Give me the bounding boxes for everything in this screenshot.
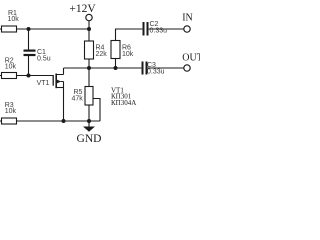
capacitor C3 bbox=[143, 62, 184, 75]
wire mid rail (drain node) bbox=[64, 67, 142, 69]
svg-text:10k: 10k bbox=[8, 16, 20, 23]
svg-text:OUT: OUT bbox=[182, 53, 200, 64]
capacitor C1 bbox=[24, 51, 36, 76]
node junction R6 bottom bbox=[114, 66, 118, 70]
power terminal +12V bbox=[86, 14, 92, 29]
wire R6 top to C2 bbox=[116, 29, 143, 41]
wire top rail to +12V junction bbox=[29, 28, 90, 30]
terminal OUT bbox=[184, 65, 190, 71]
resistor R4 bbox=[85, 41, 94, 59]
node junction R4/R5/drain bbox=[87, 66, 91, 70]
svg-text:VT1: VT1 bbox=[37, 80, 50, 87]
terminal IN bbox=[184, 26, 190, 32]
wire R4 bottom bbox=[88, 59, 90, 68]
svg-text:КП304А: КП304А bbox=[111, 99, 136, 107]
wire R5 bottom lead bbox=[88, 105, 90, 121]
ground bbox=[83, 121, 95, 132]
svg-text:10k: 10k bbox=[5, 64, 17, 71]
wire ground rail bbox=[17, 120, 101, 122]
wire R5 top lead bbox=[88, 68, 90, 87]
transistor VT1 bbox=[53, 68, 63, 88]
resistor R5 bbox=[85, 87, 93, 106]
resistor R6 bbox=[111, 41, 120, 59]
svg-text:0.33u: 0.33u bbox=[147, 69, 165, 76]
svg-text:0.5u: 0.5u bbox=[37, 56, 51, 63]
svg-text:47k: 47k bbox=[72, 96, 84, 103]
node junction source/ground rail bbox=[62, 119, 66, 123]
resistor R2 bbox=[0, 73, 29, 79]
wire R5 tap to ground bbox=[93, 99, 100, 122]
capacitor C2 bbox=[144, 22, 184, 36]
svg-text:0.33u: 0.33u bbox=[150, 28, 168, 35]
svg-text:GND: GND bbox=[77, 133, 102, 145]
resistor R1 bbox=[0, 26, 29, 32]
svg-text:22k: 22k bbox=[96, 51, 108, 58]
wire source down bbox=[63, 88, 65, 122]
node junction +12V rail bbox=[87, 27, 91, 31]
node junction R1/C1 bbox=[27, 27, 31, 31]
wire R6 bottom lead bbox=[115, 59, 117, 69]
node junction R5/GND bbox=[87, 119, 91, 123]
wire C1 upper bbox=[28, 29, 30, 50]
wire gate bbox=[29, 75, 54, 77]
svg-text:10k: 10k bbox=[122, 51, 134, 58]
svg-text:10k: 10k bbox=[5, 108, 17, 115]
svg-text:IN: IN bbox=[182, 13, 193, 24]
node junction R2/C1/gate bbox=[27, 74, 31, 78]
svg-text:+12V: +12V bbox=[69, 3, 96, 15]
resistor R3 bbox=[0, 118, 29, 124]
wire +12V to R4 bbox=[88, 29, 90, 41]
